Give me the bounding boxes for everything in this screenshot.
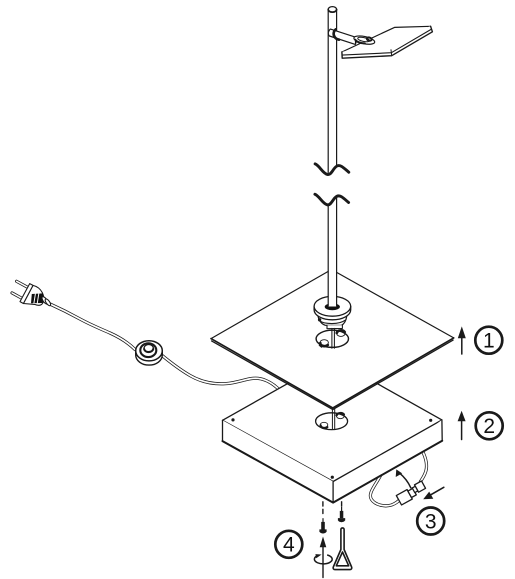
base left side face	[223, 420, 334, 502]
lamp head panel	[342, 26, 433, 58]
plug	[12, 281, 52, 306]
arrow step4	[320, 537, 327, 578]
pole upper segment	[328, 7, 336, 173]
mounting plate	[211, 270, 454, 410]
rotation arrow	[314, 554, 332, 564]
cable loop under base with connector	[370, 476, 401, 506]
plate centre hole	[316, 330, 348, 347]
cable from plug to switch to base	[50, 304, 281, 391]
svg-text:4: 4	[283, 534, 295, 557]
screw left	[319, 518, 326, 533]
head mounting ring	[353, 34, 375, 45]
foot switch	[136, 341, 163, 365]
pole lower segment	[328, 198, 336, 307]
cable drop from plate corner into base hole	[332, 409, 334, 430]
connector female half	[411, 481, 425, 494]
dashed line right screw	[341, 502, 343, 506]
connector male half	[396, 487, 417, 505]
straight arrow step3	[423, 487, 444, 499]
svg-text:1: 1	[483, 330, 495, 353]
threaded rod	[332, 328, 335, 348]
svg-text:2: 2	[483, 415, 495, 438]
base corner screw dots	[231, 418, 234, 421]
flange skirt	[318, 316, 347, 329]
dashed line left screw	[322, 502, 324, 514]
hex key tool	[333, 528, 352, 570]
curved arrow step3	[396, 469, 411, 487]
circle label 2	[476, 412, 503, 439]
screw right	[338, 507, 345, 522]
arrow step2	[458, 411, 466, 440]
circle label 3	[417, 508, 444, 535]
black ring where pole enters	[325, 303, 340, 310]
arrow step1	[458, 326, 466, 354]
circle label 4	[275, 531, 302, 558]
joint cylinder	[328, 29, 357, 44]
base bottom bold edges	[223, 441, 443, 503]
break squiggle upper	[315, 164, 349, 175]
base right side face	[333, 420, 442, 503]
flange disc	[314, 296, 351, 319]
base block top face	[223, 358, 443, 502]
cable from base to connector female half	[421, 452, 427, 482]
circle label 1	[475, 327, 502, 354]
break squiggle lower	[315, 194, 349, 205]
base centre hole	[316, 413, 348, 430]
svg-text:3: 3	[425, 510, 437, 533]
